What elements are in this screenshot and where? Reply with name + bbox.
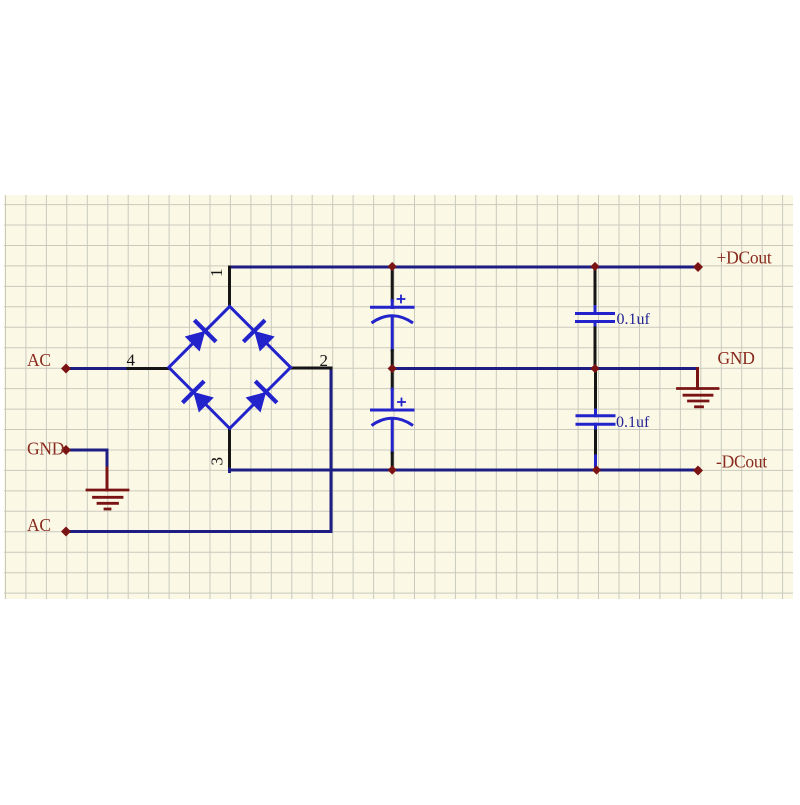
ground symbol right <box>678 369 719 407</box>
junction mid rail C3/C4 <box>590 364 599 373</box>
wire mid rail GND <box>392 367 697 370</box>
capacitor C4 0.1uf <box>577 370 614 470</box>
ground symbol left <box>87 468 128 509</box>
svg-text:AC: AC <box>27 515 51 535</box>
node AC top terminal dot <box>61 364 71 374</box>
svg-text:GND: GND <box>27 439 64 459</box>
svg-text:4: 4 <box>127 351 136 370</box>
wire bottom rail -DC <box>230 469 699 472</box>
junction top rail C1 <box>388 262 397 271</box>
capacitor C3 0.1uf <box>577 268 614 367</box>
node -DCout terminal dot <box>693 466 703 476</box>
pin 4 of bridge <box>128 367 169 370</box>
diode D1c bottom-left <box>182 381 216 415</box>
svg-text:3: 3 <box>208 457 227 466</box>
svg-text:AC: AC <box>27 350 51 370</box>
wire node 2 to AC bottom <box>330 368 333 532</box>
junction bottom rail C4 <box>592 465 601 474</box>
diode D1d bottom-right <box>243 381 277 415</box>
wire GND left <box>66 450 107 470</box>
diode D1b top-right <box>243 320 277 354</box>
node GND left terminal dot <box>61 445 71 455</box>
svg-text:GND: GND <box>718 348 755 368</box>
junction bottom rail C2 <box>388 465 397 474</box>
pin 3 of bridge <box>228 428 231 466</box>
svg-text:0.1uf: 0.1uf <box>617 311 651 328</box>
svg-text:2: 2 <box>320 351 329 370</box>
pin 1 of bridge <box>228 267 231 306</box>
node +DCout terminal dot <box>693 262 703 272</box>
junction top rail C3 <box>590 262 599 271</box>
wire node 3 elbow <box>228 466 231 472</box>
wire top rail +DC <box>230 266 699 269</box>
svg-text:0.1uf: 0.1uf <box>616 414 650 431</box>
diode D1a top-left <box>182 320 216 354</box>
svg-text:1: 1 <box>207 269 226 278</box>
bridge rectifier D1 diamond outline <box>169 306 291 428</box>
pin 2 of bridge <box>291 367 331 370</box>
wire AC bottom input <box>66 530 331 533</box>
junction mid rail C1/C2 <box>388 364 397 373</box>
node AC bottom terminal dot <box>61 527 71 537</box>
svg-text:+DCout: +DCout <box>717 248 772 268</box>
svg-text:-DCout: -DCout <box>716 452 767 472</box>
capacitor C1 electrolytic <box>372 268 414 367</box>
capacitor C2 electrolytic <box>372 370 414 469</box>
wire AC top input <box>66 367 128 370</box>
